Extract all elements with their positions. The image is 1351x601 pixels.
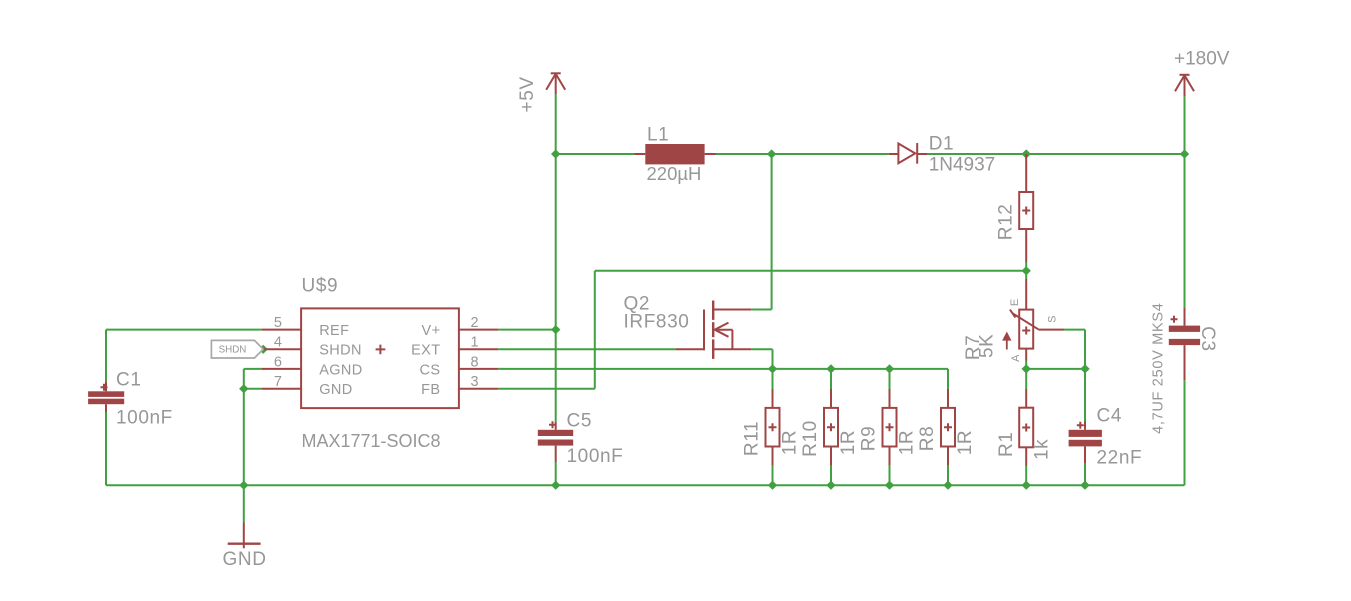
svg-text:R8: R8 (917, 426, 938, 452)
junction divider node at R7/R1 (1021, 364, 1030, 373)
resistor R8 1R (941, 389, 955, 465)
svg-text:REF: REF (319, 323, 349, 339)
svg-text:R12: R12 (996, 204, 1017, 241)
transistor Q2 IRF830 (675, 301, 751, 359)
svg-text:2: 2 (471, 315, 479, 331)
wire Q2 drain riser to switch node (771, 154, 773, 310)
wire ground bottom rail (106, 484, 1185, 486)
wire R7 A tick (1025, 361, 1027, 369)
pin 4 SHDN stub (262, 348, 301, 350)
wire FB pin 3 (498, 388, 595, 390)
svg-text:8: 8 (471, 354, 479, 370)
junction rail at R9 (885, 481, 894, 490)
junction rail at R10 (826, 481, 835, 490)
wire EXT pin 1 to Q2 gate (498, 348, 675, 350)
svg-text:C5: C5 (567, 411, 593, 432)
inductor L1 220uH (635, 144, 717, 164)
svg-text:GND: GND (223, 549, 267, 570)
wire R11 bottom (772, 465, 774, 485)
svg-text:R1: R1 (996, 431, 1017, 457)
wire R1 bottom (1025, 466, 1027, 486)
wire R7 wiper link (1064, 329, 1085, 331)
wire C4 top (1084, 369, 1086, 422)
wire top rail from +5V node to L1 (556, 153, 635, 155)
wire R12 bottom tick (1025, 262, 1027, 271)
svg-text:SHDN: SHDN (219, 344, 247, 355)
wire GND stem (243, 485, 245, 522)
wire REF pin 5 to C1 (106, 329, 262, 331)
wire FB riser (594, 271, 596, 389)
junction rail at R11 (768, 481, 777, 490)
svg-text:C3: C3 (1197, 326, 1218, 352)
wire Q2 drain link (751, 309, 772, 311)
svg-text:100nF: 100nF (116, 408, 173, 429)
wire GND drop to rail (243, 389, 245, 486)
junction V+ / C5 node (551, 325, 560, 334)
wire +180V stem (1184, 96, 1186, 154)
svg-text:1: 1 (471, 335, 479, 351)
junction CS at R11 (768, 364, 777, 373)
junction R12 top node (1021, 149, 1030, 158)
svg-text:1R: 1R (897, 430, 918, 456)
svg-text:R9: R9 (859, 426, 880, 452)
junction SHDN flag tip (259, 345, 268, 354)
svg-text:+180V: +180V (1174, 49, 1230, 70)
wire R1 top (1025, 369, 1027, 389)
wire R9 bottom (889, 465, 891, 485)
wire Q2 source link (751, 348, 772, 350)
junction rail at R1 (1021, 481, 1030, 490)
supply +5V arrow symbol (546, 73, 565, 94)
svg-text:U$9: U$9 (302, 276, 339, 297)
wire +5V stem down to V+ and C5 (555, 94, 557, 421)
svg-text:V+: V+ (422, 323, 441, 339)
svg-text:D1: D1 (929, 134, 955, 155)
ground symbol GND (228, 523, 261, 549)
svg-text:220µH: 220µH (647, 163, 702, 184)
svg-text:C4: C4 (1097, 406, 1123, 427)
pin 8 CS stub (459, 368, 498, 370)
wire R8 bottom (947, 465, 949, 485)
svg-text:S: S (1046, 316, 1058, 323)
svg-text:+5V: +5V (517, 76, 538, 112)
wire D1 cathode to R12 top node (928, 153, 1026, 155)
pin 1 EXT stub (459, 348, 498, 350)
svg-text:4,7UF 250V MKS4: 4,7UF 250V MKS4 (1150, 302, 1166, 433)
wire R9 top (889, 369, 891, 389)
wire R10 top (830, 369, 832, 389)
wire Q2 source drop to CS net (772, 349, 774, 369)
junction rail at C5 (551, 481, 560, 490)
wire CS pin 8 across sense resistors (498, 368, 948, 370)
wire divider node run (1026, 368, 1085, 370)
svg-text:C1: C1 (116, 370, 142, 391)
capacitor C4 22nF (1069, 422, 1102, 464)
wire C5 bottom (555, 462, 557, 485)
junction rail at GND stem (239, 481, 248, 490)
supply +180V arrow symbol (1175, 75, 1194, 97)
svg-text:1R: 1R (955, 430, 976, 456)
wire R7 E tick (1025, 271, 1027, 279)
junction rail at R8 (943, 481, 952, 490)
svg-text:CS: CS (420, 362, 441, 378)
wire C1 bottom drop (105, 412, 107, 485)
capacitor C5 100nF (538, 421, 573, 462)
wire C1 top riser (105, 330, 107, 382)
svg-text:R11: R11 (742, 421, 763, 456)
wire switch node to D1 anode (772, 153, 889, 155)
trimpot R7 5K (1004, 279, 1064, 361)
svg-text:1k: 1k (1032, 439, 1053, 460)
wire R11 top (772, 369, 774, 389)
wire R7 wiper riser (1084, 330, 1086, 369)
wire CS corner into R8 (947, 369, 949, 389)
wire GND pin 7 (244, 388, 262, 390)
svg-text:FB: FB (421, 382, 440, 398)
junction CS at R10 (826, 364, 835, 373)
svg-text:7: 7 (274, 374, 282, 390)
wire L1 to switch node (716, 153, 772, 155)
diode D1 1N4937 (889, 143, 928, 164)
wire V+ pin 2 to +5V line (498, 329, 555, 331)
pin 5 REF stub (262, 329, 301, 331)
svg-text:A: A (1010, 354, 1022, 362)
pin 3 FB stub (459, 388, 498, 390)
svg-text:L1: L1 (647, 125, 669, 146)
wire AGND pin 6 (244, 368, 262, 370)
wire AGND drop (243, 369, 245, 389)
wire R10 bottom (830, 465, 832, 485)
capacitor C3 4,7UF 250V MKS4 (1169, 308, 1200, 381)
pin 6 AGND stub (262, 368, 301, 370)
junction divider node at wiper/C4 (1080, 364, 1089, 373)
resistor R12 (1019, 154, 1033, 262)
wire FB top run to R12 bottom (595, 270, 1026, 272)
capacitor C1 100nF (88, 382, 124, 412)
svg-text:3: 3 (471, 374, 479, 390)
junction switch node (767, 149, 776, 158)
svg-text:AGND: AGND (319, 362, 363, 378)
svg-text:6: 6 (274, 354, 282, 370)
svg-text:R10: R10 (800, 420, 821, 457)
svg-text:22nF: 22nF (1097, 448, 1143, 469)
wire +180V node down to C3 top (1184, 154, 1186, 308)
junction +5V node (551, 149, 560, 158)
junction AGND/GND pins (239, 384, 248, 393)
svg-text:5K: 5K (977, 334, 998, 358)
label flag SHDN (211, 340, 263, 358)
junction +180V node (1180, 149, 1189, 158)
svg-text:SHDN: SHDN (319, 343, 362, 359)
junction CS at R9 (885, 364, 894, 373)
junction rail at C4 (1080, 481, 1089, 490)
svg-text:EXT: EXT (411, 343, 440, 359)
svg-text:4: 4 (274, 335, 282, 351)
junction FB net at R12 bottom (1021, 266, 1030, 275)
op-amp U$9 MAX1771-SOIC8 box (301, 308, 459, 408)
wire R12 node to +180V node (1026, 153, 1184, 155)
resistor R1 1k (1019, 389, 1033, 466)
wire C4 bottom (1084, 463, 1086, 485)
svg-text:E: E (1009, 299, 1021, 306)
svg-text:100nF: 100nF (567, 446, 624, 467)
resistor R9 1R (883, 389, 897, 465)
svg-text:1R: 1R (780, 430, 801, 456)
resistor R10 1R (824, 389, 838, 465)
svg-text:5: 5 (274, 315, 282, 331)
wire C3 bottom to ground rail (1184, 380, 1186, 485)
pin 2 V+ stub (459, 329, 498, 331)
pin 7 GND stub (262, 388, 301, 390)
svg-text:GND: GND (319, 382, 352, 398)
svg-text:1R: 1R (838, 430, 859, 456)
resistor R11 1R (766, 389, 780, 465)
svg-text:1N4937: 1N4937 (929, 155, 996, 176)
svg-text:IRF830: IRF830 (624, 312, 690, 333)
svg-text:MAX1771-SOIC8: MAX1771-SOIC8 (302, 431, 441, 451)
